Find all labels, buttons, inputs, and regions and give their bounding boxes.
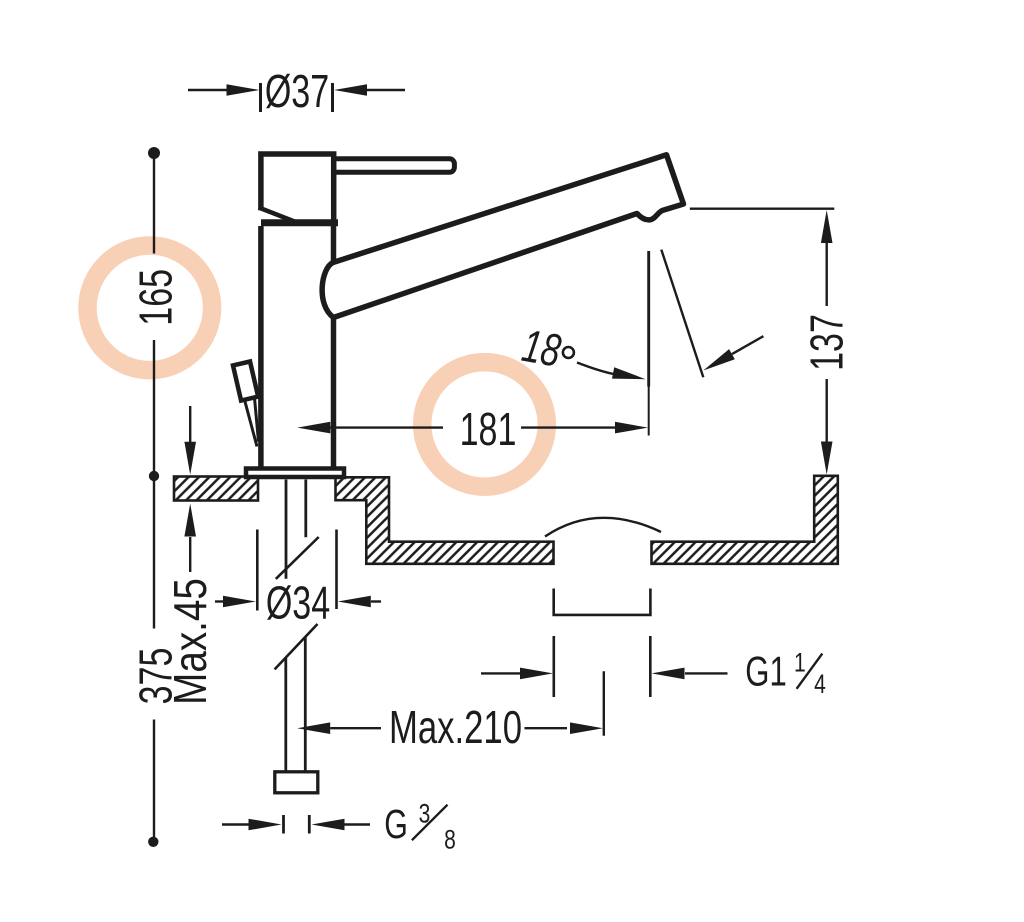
highlight ring around 165 label <box>88 245 213 370</box>
Max.210 left arrow at pipe <box>297 722 330 734</box>
cartridge collar <box>261 219 338 226</box>
G1 1/4 right lead line <box>685 672 728 674</box>
faucet body right edge upper <box>331 219 337 262</box>
basin Z-profile: counter edge, bowl wall and floor left of drain (hatched section) <box>336 477 554 564</box>
svg-text:G: G <box>384 800 408 847</box>
dimension 181 left arrow at faucet body <box>297 422 330 434</box>
bottom end dot <box>148 837 158 847</box>
spout <box>322 155 683 318</box>
dimension O37 lead lines <box>188 89 405 91</box>
svg-text:Max.210: Max.210 <box>389 701 522 753</box>
O34 right lead line <box>371 600 381 602</box>
svg-text:181: 181 <box>460 403 517 455</box>
vertical dimension stack line 165/375 <box>153 153 155 842</box>
faucet body right edge lower <box>331 317 337 467</box>
G3/8 connector nub <box>275 772 318 793</box>
G3/8 right arrow <box>312 819 345 831</box>
18 degree leader line <box>732 336 763 354</box>
Max.210 right arrow <box>570 722 603 734</box>
drain pull rod <box>245 399 259 447</box>
fraction slash <box>412 805 448 841</box>
svg-text:8: 8 <box>444 825 456 855</box>
O34 right arrow <box>338 596 371 608</box>
svg-text:1: 1 <box>794 648 806 678</box>
dimension Max.45 lead lines <box>189 406 191 572</box>
137 dimension line <box>826 242 828 442</box>
highlight ring around 181 label <box>422 362 547 487</box>
supply pipe lower segment <box>286 637 306 772</box>
handle block <box>261 154 334 219</box>
countertop left slab (hatched section) <box>174 477 258 501</box>
18 degree arc <box>577 363 614 375</box>
svg-text:Ø34: Ø34 <box>266 576 330 628</box>
O34 extension lines <box>257 530 336 611</box>
18 degree slanted reference line <box>661 250 703 378</box>
drain axis terminal line <box>603 671 605 736</box>
svg-text:4: 4 <box>814 670 826 700</box>
counter level dot <box>149 471 159 481</box>
Max.45 up arrow <box>184 504 196 537</box>
base flange <box>246 469 344 478</box>
degree mark <box>563 347 574 358</box>
handle lever bar <box>328 159 454 173</box>
O37 right arrow <box>334 84 367 96</box>
G1 1/4 left lead line <box>481 672 522 674</box>
spout outlet horizontal reference line <box>690 207 835 209</box>
G1 1/4 left arrow <box>520 668 553 680</box>
drain pull knob <box>233 362 258 401</box>
137 up arrow <box>821 210 833 243</box>
G1 1/4 extension lines <box>554 636 651 697</box>
18 degree leader arrow <box>700 349 734 375</box>
aerator axis reference line lower part <box>648 387 650 436</box>
svg-text:165: 165 <box>130 269 182 326</box>
svg-text:137: 137 <box>800 314 852 371</box>
basin floor right of drain and right bowl wall (hatched section) <box>652 476 838 564</box>
pipe break slash lower <box>275 624 318 669</box>
Max.210 dimension line <box>330 727 567 729</box>
G3/8 right lead line <box>345 823 371 825</box>
pipe break slash upper <box>276 537 319 579</box>
fraction slash <box>797 654 823 689</box>
svg-text:Max.45: Max.45 <box>165 578 216 705</box>
O34 left lead line <box>215 600 224 602</box>
drain dome arc <box>545 518 661 537</box>
G3/8 left lead line <box>222 823 250 825</box>
top end dot <box>148 147 160 159</box>
supply pipe upper segment <box>286 480 306 579</box>
faucet body left edge <box>258 226 264 467</box>
O37 extension ticks <box>261 83 333 112</box>
O37 left arrow <box>227 84 260 96</box>
svg-text:Ø37: Ø37 <box>265 65 329 117</box>
181 dimension line <box>330 426 616 428</box>
svg-text:18: 18 <box>518 319 565 377</box>
18 degree arc arrow <box>612 367 647 385</box>
handle notch diagonal <box>259 208 295 222</box>
G3/8 left arrow <box>249 819 282 831</box>
svg-text:G1: G1 <box>745 648 786 695</box>
G1 1/4 right arrow <box>652 668 685 680</box>
aerator axis vertical reference line <box>647 251 650 387</box>
O34 left arrow <box>223 596 256 608</box>
Max.45 down arrow <box>184 442 196 475</box>
G3/8 extension ticks <box>284 815 310 834</box>
137 down arrow <box>821 442 833 475</box>
181 right arrow <box>615 422 648 434</box>
drain tailpiece bracket <box>552 589 651 615</box>
